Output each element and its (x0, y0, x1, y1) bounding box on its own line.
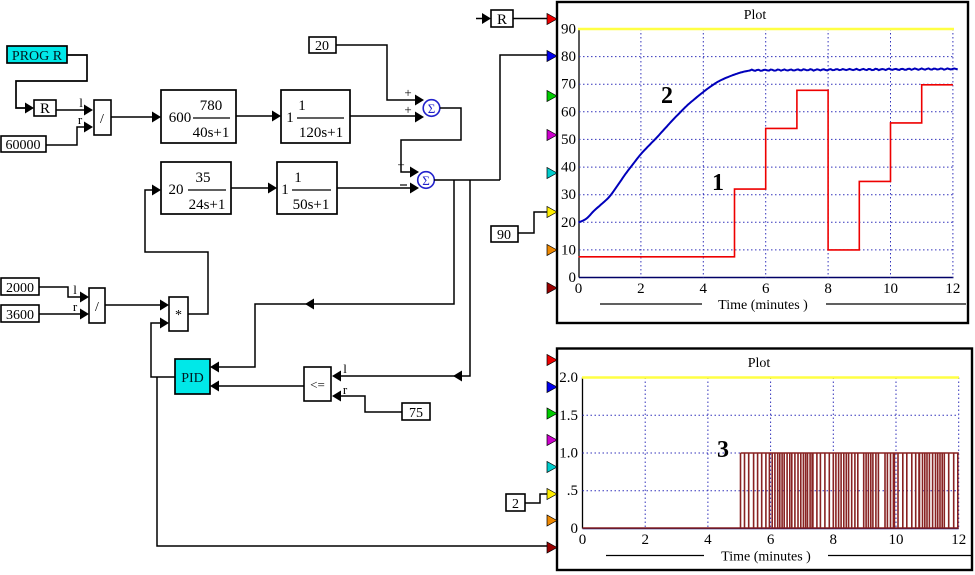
wire 780 block to 1/(120s+1) (236, 111, 281, 122)
plot2 grid and axes (582, 378, 959, 529)
svg-text:R: R (40, 101, 50, 117)
svg-text:2: 2 (641, 532, 649, 548)
constant 20 box (309, 37, 336, 54)
svg-text:2: 2 (637, 281, 645, 297)
divide block U2 (2000/3600) (89, 288, 105, 323)
svg-text:1: 1 (712, 170, 724, 196)
svg-text:120s+1: 120s+1 (299, 125, 343, 141)
multiply block (169, 297, 188, 331)
wire 75 to comparator r input (332, 382, 402, 412)
svg-text:3600: 3600 (6, 308, 34, 323)
plot1 input arrow 2 (547, 51, 557, 62)
svg-text:30: 30 (561, 187, 576, 203)
wire 1/(120s+1) to summer S1 plus input (350, 102, 424, 123)
wire S2 output down to PID upper input (210, 180, 454, 373)
wire divide to transfer fn 780/(40s+1) (111, 112, 161, 123)
svg-text:.5: .5 (567, 483, 578, 499)
summing junction S1 (423, 100, 440, 117)
plot1 y axis labels (561, 22, 576, 287)
svg-text:20: 20 (561, 215, 576, 231)
plot1 grid and axes (578, 29, 954, 278)
plot window 1 frame (557, 2, 968, 323)
plot window 2 frame (557, 349, 972, 571)
svg-text:8: 8 (824, 281, 832, 297)
svg-text:0: 0 (575, 281, 583, 297)
PROG R source block (7, 46, 67, 64)
svg-text:R: R (497, 12, 507, 28)
plot2 pulse train trace (signal 3) (583, 453, 959, 529)
svg-text:60000: 60000 (6, 138, 41, 153)
svg-text:/: / (95, 300, 99, 315)
svg-text:1: 1 (294, 170, 302, 186)
plot2 input arrow 7 (547, 515, 557, 526)
wire PROG R output to variable R box (16, 55, 87, 114)
svg-text:4: 4 (700, 281, 708, 297)
svg-text:1: 1 (281, 182, 289, 198)
transfer function block 600*780/(40s+1) (161, 90, 236, 143)
plot1 curve label 1 (712, 170, 724, 196)
svg-text:1: 1 (286, 110, 294, 126)
svg-text:6: 6 (767, 532, 775, 548)
divide block U1 (R/60000) (94, 100, 111, 135)
svg-text:600: 600 (169, 110, 192, 126)
plot2 input arrow 8 (547, 542, 557, 553)
wire 60000 to divide r input (46, 112, 93, 145)
transfer function block 1/(50s+1) (277, 162, 337, 214)
svg-text:l: l (73, 282, 77, 297)
svg-text:+: + (397, 157, 404, 172)
svg-text:PROG R: PROG R (12, 49, 63, 64)
svg-text:0: 0 (571, 521, 579, 537)
svg-text:60: 60 (561, 104, 576, 120)
plot2 input arrow 4 (547, 435, 557, 446)
plot1 input arrow 1 (547, 14, 557, 25)
wire S2 output down to comparator l input (332, 180, 470, 382)
constant 2000 box (1, 278, 39, 296)
svg-text:40s+1: 40s+1 (193, 125, 230, 141)
variable R box (left) (34, 100, 56, 117)
svg-text:90: 90 (561, 22, 576, 38)
svg-text:+: + (404, 85, 411, 100)
svg-text:90: 90 (497, 228, 511, 243)
svg-text:10: 10 (889, 532, 904, 548)
plot1 input arrow 6 (547, 207, 557, 218)
svg-text:l: l (343, 361, 347, 376)
plot2 input arrow 1 (547, 355, 557, 366)
svg-text:3: 3 (717, 437, 729, 463)
plot1 input arrow 8 (547, 283, 557, 294)
svg-text:Σ: Σ (422, 173, 430, 188)
transfer function block 20*35/(24s+1) (161, 162, 231, 214)
svg-text:+: + (404, 102, 411, 117)
svg-text:l: l (79, 95, 83, 110)
wire 20 to summer S1 plus input (336, 45, 424, 106)
svg-text:8: 8 (830, 532, 838, 548)
svg-text:10: 10 (883, 281, 898, 297)
svg-text:12: 12 (945, 281, 960, 297)
svg-text:75: 75 (409, 406, 423, 421)
variable R box (top, feeds plot1) (476, 10, 549, 28)
plot1 x axis title Time (minutes) (600, 297, 966, 313)
svg-text:r: r (343, 382, 348, 397)
svg-text:0: 0 (579, 532, 587, 548)
constant 60000 box (1, 136, 46, 153)
svg-text:1: 1 (298, 98, 306, 114)
plot1 input arrow 4 (547, 130, 557, 141)
wire S2 output up to plot1 blue input (500, 55, 549, 180)
svg-text:10: 10 (561, 242, 576, 258)
plot2 x axis title Time (minutes) (606, 549, 972, 565)
wire R to divide l input (56, 95, 93, 116)
plot1 input arrow 7 (547, 245, 557, 256)
svg-text:*: * (175, 308, 182, 323)
wire 2000 to divide2 l input (39, 282, 89, 303)
constant 2 box (506, 494, 549, 512)
wire 1/(50s+1) to summer S2 minus input (337, 183, 419, 194)
svg-text:1.0: 1.0 (559, 446, 578, 462)
svg-text:Time (minutes ): Time (minutes ) (718, 298, 808, 313)
plot2 x axis labels (579, 532, 966, 548)
svg-text:35: 35 (196, 170, 211, 186)
plot1 input arrow 3 (547, 91, 557, 102)
svg-text:50s+1: 50s+1 (293, 197, 330, 213)
svg-text:r: r (73, 299, 78, 314)
svg-text:12: 12 (951, 532, 966, 548)
svg-text:80: 80 (561, 49, 576, 65)
constant 75 box (402, 403, 430, 421)
plot2 curve label 3 (717, 437, 729, 463)
plot2 input arrow 3 (547, 408, 557, 419)
svg-text:Plot: Plot (744, 8, 767, 23)
svg-text:Time (minutes ): Time (minutes ) (721, 550, 811, 565)
wire multiply output to 35/(24s+1) input (145, 185, 208, 315)
wire 3600 to divide2 r input (39, 299, 89, 320)
svg-text:20: 20 (315, 39, 329, 54)
plot1 input arrow 5 (547, 168, 557, 179)
constant 3600 box (1, 305, 39, 323)
comparator block <= (304, 367, 331, 401)
wire 35 block to 1/(50s+1) (231, 183, 277, 194)
wire S2 output trunk (434, 179, 500, 181)
PID controller block (175, 359, 210, 394)
svg-text:20: 20 (169, 182, 184, 198)
wire divide2 to multiply upper input (105, 300, 169, 311)
svg-text:40: 40 (561, 160, 576, 176)
summing junction S2 (418, 172, 435, 189)
svg-text:780: 780 (200, 98, 223, 114)
svg-text:2000: 2000 (6, 281, 34, 296)
svg-text:/: / (100, 112, 104, 127)
plot1 x axis labels (575, 281, 961, 297)
svg-text:PID: PID (181, 371, 204, 386)
plot2 y axis labels (559, 370, 578, 537)
svg-text:2: 2 (661, 83, 673, 109)
svg-text:Σ: Σ (428, 101, 436, 116)
wire comparator output to PID lower input (210, 381, 304, 392)
svg-text:2.0: 2.0 (559, 370, 578, 386)
wire S1 output to summer S2 plus input (397, 108, 461, 178)
constant 90 box (491, 212, 549, 243)
svg-text:4: 4 (704, 532, 712, 548)
svg-text:1.5: 1.5 (559, 408, 578, 424)
plot1 blue response trace (signal 2) (579, 68, 958, 222)
plot2 input arrow 2 (547, 382, 557, 393)
plot1 curve label 2 (661, 83, 673, 109)
transfer function block 1/(120s+1) (281, 90, 350, 143)
wire PID output to multiply lower input and to plot2 (151, 318, 549, 547)
svg-text:6: 6 (762, 281, 770, 297)
svg-text:Plot: Plot (748, 356, 771, 371)
plot2 input arrow 6 (547, 489, 557, 500)
plot1 red step trace (signal 1) (579, 85, 953, 257)
svg-text:24s+1: 24s+1 (189, 197, 226, 213)
svg-text:50: 50 (561, 132, 576, 148)
svg-text:2: 2 (512, 497, 519, 512)
svg-text:r: r (78, 112, 83, 127)
svg-text:70: 70 (561, 77, 576, 93)
svg-text:<=: <= (310, 377, 325, 392)
plot2 input arrow 5 (547, 462, 557, 473)
